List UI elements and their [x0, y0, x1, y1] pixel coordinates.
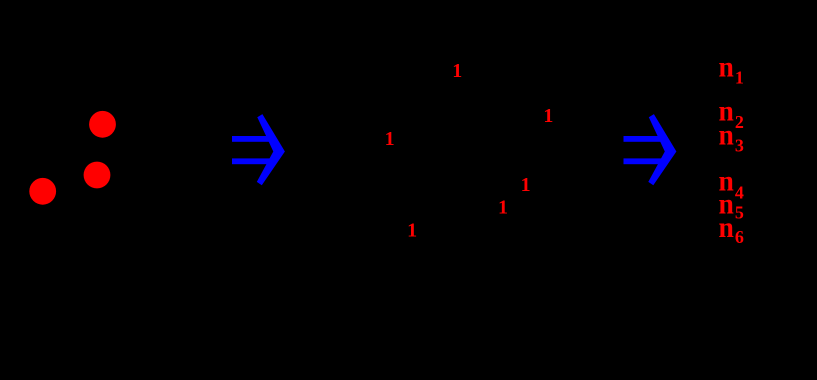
node label n1: [719, 50, 744, 87]
svg-text:1: 1: [407, 219, 417, 241]
node label n4: [719, 165, 744, 203]
svg-text:6: 6: [735, 227, 744, 247]
svg-text:n: n: [719, 118, 734, 151]
svg-text:5: 5: [735, 202, 744, 222]
node label n3: [719, 118, 744, 155]
svg-text:1: 1: [452, 60, 462, 82]
node label n6: [719, 211, 744, 247]
svg-text:4: 4: [735, 182, 744, 202]
svg-text:2: 2: [735, 112, 744, 132]
svg-text:1: 1: [521, 174, 531, 196]
svg-text:n: n: [719, 211, 734, 244]
svg-text:3: 3: [735, 136, 744, 156]
blue implication arrow 2: [624, 114, 677, 185]
svg-text:1: 1: [543, 105, 553, 127]
node label n5: [719, 188, 744, 223]
red point P1: [89, 111, 116, 138]
blue implication arrow 1: [232, 114, 285, 185]
svg-text:1: 1: [735, 68, 744, 88]
svg-text:1: 1: [498, 196, 508, 218]
svg-text:1: 1: [385, 128, 395, 150]
svg-text:n: n: [719, 50, 734, 83]
node label n2: [719, 94, 744, 131]
red point P2: [84, 162, 111, 189]
red point P3: [29, 178, 56, 205]
